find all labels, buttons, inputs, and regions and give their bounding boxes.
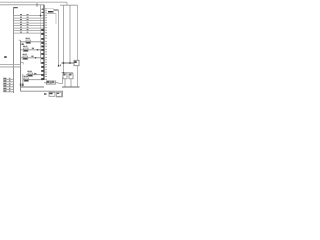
wire row to U1 pin VREF (21, 57, 45, 59)
wire data D2 to U1 (14, 20, 45, 22)
junction node VREF (35, 57, 37, 59)
wire J1 pin 4 (3, 86, 14, 88)
label U1 pin number 5 (45, 17, 47, 18)
label pin D6 (27, 28, 29, 31)
wire VCC bus lower (0, 66, 21, 68)
label U1 pin number 4 (45, 15, 47, 16)
wire ground rail vertical (20, 40, 22, 91)
wire net XTAL2 vertical (63, 5, 65, 73)
label U1 port y54.0 (41, 53, 44, 55)
label U1 pin number 25 (45, 69, 47, 70)
wire data D7 to U1 (14, 32, 45, 34)
capacitor C4 (23, 54, 28, 60)
label R8 (47, 81, 50, 82)
capacitor C1 (63, 74, 67, 79)
capacitor C3 (23, 46, 28, 52)
label Q1 (22, 84, 24, 87)
label R9 (52, 81, 54, 82)
wire C2 to ground (70, 79, 72, 87)
label U1 port y58.5 (41, 58, 44, 60)
wire stub rail to bus (21, 62, 24, 64)
wire J1 pin 6 (3, 91, 14, 93)
label net VREF (31, 56, 33, 57)
resistor R5 (28, 71, 33, 77)
label net D7 (20, 31, 22, 34)
junction caps top (63, 72, 65, 74)
resistor R11 (57, 92, 62, 96)
label U1 port y67.0 (41, 66, 44, 68)
junction node AREF (37, 49, 39, 51)
wire net SWD vertical (62, 77, 64, 84)
label U1 pin number 28 (45, 76, 47, 77)
label U1 pin number 21 (45, 59, 47, 60)
label C2 (69, 74, 71, 75)
wire J1 pin 3 (3, 83, 14, 85)
label pin D3 (27, 21, 29, 24)
label U1 net y12.6 (42, 12, 44, 13)
resistor R1 (26, 38, 31, 44)
wire GND bus top-left (0, 4, 44, 6)
wire LED row return (56, 96, 63, 98)
wire corner to net SWD (59, 83, 63, 85)
wire J1 pin 2 (3, 81, 14, 83)
label U1 port y63.0 (41, 62, 44, 64)
wire J1 pin 5 (3, 88, 14, 90)
label U1 port y50.0 (41, 49, 44, 51)
wire row to U1 pin PB6 (26, 74, 44, 76)
junction node RST (40, 15, 42, 17)
wire data D6 to U1 (14, 30, 45, 32)
label U1 port y43.0 (41, 42, 44, 44)
resistor R9 (52, 81, 56, 84)
wire net XTAL1 vertical (69, 5, 71, 63)
label net LED (44, 93, 46, 94)
wire drop to LED row (62, 91, 64, 97)
label U1 pin number 15 (45, 43, 47, 44)
label net D5 (20, 26, 22, 29)
label C1 (63, 74, 65, 75)
wire data D1 to U1 (14, 17, 45, 19)
label U1 port y79.0 (41, 78, 44, 80)
wire caps top (62, 72, 74, 74)
diode D1 (49, 92, 55, 96)
label U1 pin number 14 (45, 41, 47, 42)
label pin D7 (27, 31, 29, 34)
junction XTAL1 (69, 62, 71, 64)
op-amp U1 name box top (47, 8, 54, 10)
label U1 port y71.0 (41, 70, 44, 72)
wire XTAL horizontal (62, 62, 75, 64)
label pin D2 (27, 18, 29, 21)
label U1 pin number 9 (45, 27, 47, 28)
label R11 (57, 93, 59, 94)
label J1 pin number 2 (9, 79, 11, 82)
label D1 (49, 93, 52, 94)
label pin 4 (58, 65, 59, 67)
label U1 pin number 29 (45, 79, 47, 80)
wire data D5 to U1 (14, 27, 45, 29)
label J1 pin number 1 (9, 77, 11, 80)
label J1-3 (3, 83, 6, 84)
crystal Y1 (74, 60, 79, 65)
wire net RST continuation (40, 16, 42, 50)
label U1 pin number 27 (45, 74, 47, 75)
label U1 pin number 11 (45, 32, 47, 33)
label U1 pin number 2 (45, 10, 47, 11)
wire bus corner right (66, 2, 68, 5)
wire row to U1 pin AVCC (21, 41, 44, 43)
junction tie on bus (36, 3, 38, 6)
wire bus top-right (60, 4, 78, 6)
label pin D0 (27, 13, 29, 16)
wire net VREF stub down (40, 58, 42, 64)
label U1 port y30.0 (41, 29, 44, 31)
label pin D1 (27, 16, 29, 19)
label U1 port y46.5 (41, 46, 44, 48)
wire bottom rail (21, 90, 64, 92)
label U1 pin number 17 (45, 49, 47, 50)
label net MISO (60, 65, 61, 67)
label U1 pin number 7 (45, 22, 47, 23)
label net D4 (20, 23, 22, 26)
wire C1 to ground (64, 79, 66, 87)
label J1 pin number 5 (9, 87, 11, 90)
wire stub at rail top (19, 39, 21, 41)
label net AREF (32, 48, 34, 49)
wire header corner drop (13, 8, 15, 16)
label U1 pin number 10 (45, 30, 47, 31)
label U1 pin number 13 (45, 38, 47, 39)
label U1 pin number 22 (45, 62, 47, 63)
label J1 pin number 4 (9, 84, 11, 87)
wire U1 inner divider (55, 14, 57, 24)
wire net MISO vertical (58, 10, 60, 66)
wire drop to node RST (40, 5, 42, 16)
label net D2 (20, 18, 22, 21)
ground rail right (62, 86, 80, 88)
label U1 pin number 19 (45, 54, 47, 55)
label J1-5 (3, 88, 6, 89)
label J1-1 (3, 78, 6, 79)
label U1 pin number 24 (45, 67, 47, 68)
wire Y1 to ground (77, 66, 79, 87)
label net D6 (20, 28, 22, 31)
wire Q1 emitter (22, 74, 24, 87)
label net D0 (20, 13, 22, 16)
wire left bus vertical (13, 8, 15, 93)
label net D3 (20, 21, 22, 24)
label below row A (22, 44, 24, 45)
resistor R8 (47, 81, 51, 84)
wire VCC bus top (0, 1, 67, 3)
wire GND bus lower (0, 63, 21, 65)
label U1 pin number 6 (45, 20, 47, 21)
label U1 port y39.0 (41, 38, 44, 40)
wire U1 right stub (54, 9, 59, 11)
wire data D4 to U1 (14, 25, 45, 27)
wire row to U1 pin AREF (21, 49, 45, 51)
label U1 pin number 23 (45, 64, 47, 65)
wire U1 name box base (47, 13, 56, 15)
label J1-6 (3, 90, 6, 91)
wire J1 pin 1 (3, 78, 14, 80)
label U1 net y9.4 (42, 9, 44, 10)
label U1 pin number 1 (45, 8, 47, 9)
wire row to U1 pin PB7 (23, 79, 44, 81)
label U1 name (48, 11, 53, 13)
label net D1 (20, 16, 22, 19)
resistor R6 (24, 76, 29, 82)
label U1 pin number 16 (45, 46, 47, 47)
wire U1 bottom row (44, 82, 59, 84)
wire data D0 to U1 (14, 15, 45, 17)
wire header corner top (13, 7, 18, 9)
op-amp U1 left edge (43, 5, 45, 80)
wire link AREF-VREF (40, 50, 42, 58)
label J1 pin number 3 (9, 82, 11, 85)
label U1 pin number 26 (45, 72, 47, 73)
label net VIN (4, 56, 6, 58)
label pin D4 (27, 23, 29, 26)
label J1-4 (3, 85, 6, 86)
label U1 pin number 3 (45, 12, 47, 13)
wire stub corner (22, 63, 24, 65)
label pin D5 (27, 26, 29, 29)
label U1 port y34.0 (41, 33, 44, 35)
label J1 pin number 6 (9, 89, 11, 92)
wire data D3 to U1 (14, 22, 45, 24)
label U1 pin number 18 (45, 51, 47, 52)
op-amp U1 name box right (53, 9, 55, 14)
label J1-2 (3, 80, 6, 81)
wire ground rail horizontal (21, 86, 45, 88)
label U1 pin number 12 (45, 35, 47, 36)
transistor Q1 body (20, 84, 22, 87)
label U1 pin number 8 (45, 25, 47, 26)
capacitor C2 (69, 74, 73, 79)
label U1 pin number 20 (45, 57, 47, 58)
wire net VBAT vertical (77, 5, 79, 60)
label U1 port y75.0 (41, 74, 44, 76)
label Y1 (74, 61, 76, 63)
junction XTAL2 (63, 62, 65, 64)
label net PB6 (34, 73, 36, 74)
